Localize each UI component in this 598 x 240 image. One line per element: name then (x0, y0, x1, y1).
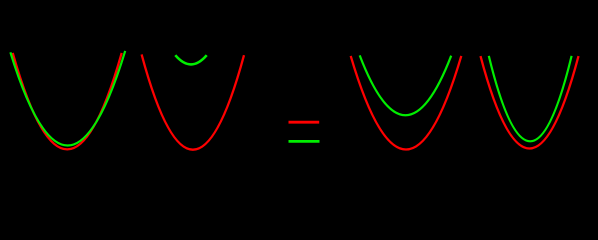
plot1 red parabola (13, 53, 122, 149)
plot4 green parabola (489, 56, 572, 141)
plot4 red parabola (481, 56, 579, 148)
plot3 red parabola (351, 56, 462, 150)
equals red bar (289, 121, 320, 124)
plot3 green parabola (360, 55, 452, 115)
plot2 green arc (175, 55, 206, 64)
plot1 green parabola (10, 51, 125, 146)
equals green bar (289, 140, 320, 143)
plot2 red parabola (142, 54, 244, 149)
